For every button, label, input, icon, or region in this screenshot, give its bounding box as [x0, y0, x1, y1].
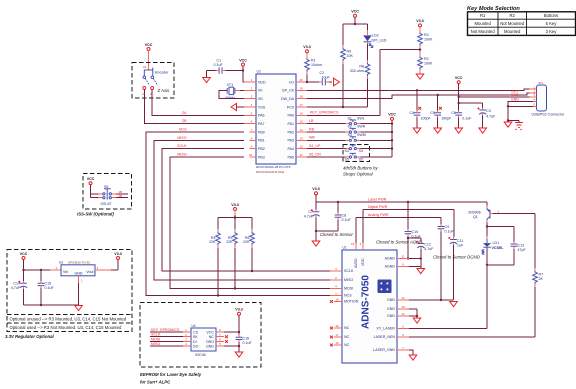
- net label Laser PWR: [368, 198, 387, 202]
- svg-text:Mounted: Mounted: [475, 21, 492, 26]
- ground arrow (C5): [434, 128, 442, 133]
- svg-text:22K: 22K: [243, 240, 250, 244]
- capacitor C16 0.1uF: [236, 335, 253, 352]
- EEPROM right pin numbers: [219, 328, 221, 346]
- resistor R1 10ohm: [305, 53, 322, 75]
- capacitor C5 100pF: [430, 94, 452, 128]
- svg-text:Vout: Vout: [86, 270, 93, 274]
- svg-text:0.1uF: 0.1uF: [214, 63, 224, 67]
- power V3.3 (pull-ups): [231, 203, 238, 211]
- svg-text:Vin: Vin: [63, 270, 68, 274]
- svg-text:2K: 2K: [539, 277, 544, 281]
- IC U2 left pin names: [258, 80, 266, 159]
- net label MISO: [177, 136, 186, 140]
- svg-text:PB0: PB0: [258, 130, 265, 134]
- svg-text:16: 16: [299, 111, 303, 115]
- wire connector ground pins: [507, 102, 533, 123]
- net label S4_UP: [309, 144, 321, 148]
- net label SCLK (eeprom): [151, 333, 161, 337]
- svg-text:VCC: VCC: [145, 43, 153, 47]
- switch S5: [345, 153, 363, 161]
- wire EEPROM SK: [150, 336, 183, 338]
- label USB/PS2 Connector: [532, 112, 566, 116]
- svg-text:GP_CK: GP_CK: [282, 89, 295, 93]
- svg-text:ISS-6T: ISS-6T: [101, 202, 113, 206]
- EEPROM pin names: [193, 330, 199, 348]
- svg-text:R7: R7: [539, 273, 544, 277]
- svg-text:Digital PWR: Digital PWR: [368, 205, 388, 209]
- wire AGND pins: [409, 257, 422, 268]
- wire C1 to VCC node: [226, 70, 243, 72]
- svg-text:X0: X0: [258, 89, 262, 93]
- svg-text:V3.3: V3.3: [114, 252, 121, 256]
- svg-text:Not Mounted: Not Mounted: [471, 29, 496, 34]
- ground arrow (EEPROM): [235, 352, 243, 357]
- wire VSS: [237, 106, 250, 108]
- net label ZB: [182, 119, 187, 123]
- svg-text:MISO: MISO: [177, 136, 186, 140]
- svg-text:15: 15: [299, 120, 303, 124]
- junction C1/VCC: [242, 69, 244, 71]
- IC U2 left pin stubs: [250, 82, 257, 157]
- power VCC (buttons): [388, 113, 396, 121]
- svg-text:11: 11: [299, 153, 302, 157]
- svg-text:AVDD: AVDD: [354, 258, 358, 268]
- wire LASER_GND: [409, 350, 413, 355]
- LED LD2 DPI_LED: [363, 30, 387, 47]
- note Closed to Sensor DGND: [433, 254, 480, 259]
- svg-text:Closed to Sensor DGND: Closed to Sensor DGND: [433, 254, 480, 259]
- wire R9 to PC0 line: [342, 64, 344, 108]
- capacitor C4 100pF: [410, 89, 432, 128]
- svg-text:RB: RB: [309, 127, 315, 131]
- svg-text:V3.3: V3.3: [231, 203, 238, 207]
- svg-text:100K: 100K: [424, 62, 433, 66]
- wire GND15/GND13: [409, 309, 418, 318]
- svg-text:C7: C7: [308, 210, 313, 214]
- switch S1 SWL: [345, 116, 364, 124]
- svg-text:NC: NC: [344, 343, 350, 347]
- ground arrow (GND15): [413, 318, 421, 323]
- no-connect X EEPROM NC: [225, 335, 228, 338]
- svg-text:VCC: VCC: [206, 330, 214, 334]
- svg-text:KEY_EPROM/CS: KEY_EPROM/CS: [151, 328, 180, 332]
- svg-text:EEPROM for Laser Eye Safety: EEPROM for Laser Eye Safety: [140, 372, 202, 377]
- ADNS left pin names: [344, 269, 359, 347]
- svg-text:LD2: LD2: [372, 34, 379, 38]
- svg-text:PA1: PA1: [287, 122, 294, 126]
- svg-text:MOTION: MOTION: [344, 300, 359, 304]
- svg-text:14: 14: [299, 128, 303, 132]
- laser diode LD1 VCSEL: [482, 236, 504, 254]
- svg-text:VCC: VCC: [239, 58, 247, 62]
- resistor R5 22K: [209, 229, 220, 248]
- svg-text:XT1: XT1: [227, 83, 234, 87]
- IC U2 right pin stubs: [296, 82, 307, 157]
- svg-text:17: 17: [335, 333, 339, 337]
- wire Analog PWR rail: [356, 218, 441, 251]
- capacitor C10 0.1uF: [405, 202, 422, 260]
- svg-text:SCLK: SCLK: [151, 333, 161, 337]
- svg-text:XY_LASER: XY_LASER: [376, 327, 395, 331]
- svg-text:18: 18: [299, 95, 303, 99]
- svg-text:LD1: LD1: [493, 241, 500, 245]
- dashed box ISS-SW: [83, 174, 132, 210]
- svg-text:6MHz: 6MHz: [226, 96, 236, 100]
- sensor icon: [378, 280, 392, 294]
- svg-text:GND: GND: [387, 307, 395, 311]
- svg-text:R1: R1: [480, 13, 486, 18]
- no-connect X MOTION: [330, 300, 333, 303]
- ground arrow (AGND): [417, 269, 425, 274]
- wire regulator ground rail: [24, 276, 79, 306]
- net label Digital PWR: [368, 205, 388, 209]
- net labels ISS: [119, 190, 123, 198]
- svg-text:VCSEL: VCSEL: [492, 246, 505, 250]
- svg-text:VCC: VCC: [351, 10, 359, 14]
- svg-text:Closed to Sensor AGND: Closed to Sensor AGND: [376, 240, 422, 245]
- wire Digital PWR rail: [363, 210, 454, 251]
- wire V3.3 rail pull-ups: [218, 211, 252, 230]
- svg-text:SWL: SWL: [357, 116, 365, 120]
- svg-text:SK: SK: [193, 335, 198, 339]
- svg-text:PA3: PA3: [287, 139, 294, 143]
- wire DW_DA to connector pin2: [307, 93, 537, 98]
- net label KEY_EPROM/CS (eeprom): [151, 328, 180, 332]
- svg-text:R9: R9: [347, 50, 352, 54]
- note Closed to Sensor: [320, 232, 354, 237]
- svg-text:VDD: VDD: [258, 80, 266, 84]
- wire VCC to encoder: [148, 51, 150, 71]
- ground arrow (LASER_GND): [409, 355, 417, 360]
- wire Q1 base to R7: [490, 214, 535, 268]
- svg-text:S3: S3: [348, 133, 352, 137]
- svg-text:SWM: SWM: [357, 133, 366, 137]
- svg-text:22K: 22K: [209, 240, 216, 244]
- wire gnd to C1: [207, 71, 216, 78]
- svg-text:NC: NC: [209, 335, 215, 339]
- wire ISS rows: [91, 185, 129, 198]
- earth ground (connector): [515, 123, 523, 131]
- capacitor C6 0.1uF: [451, 110, 472, 120]
- svg-text:MOSI: MOSI: [151, 337, 160, 341]
- svg-text:Encoder: Encoder: [155, 71, 169, 75]
- svg-text:3.3V Regulator Optional: 3.3V Regulator Optional: [5, 334, 55, 339]
- wire RB row: [307, 131, 392, 133]
- svg-text:18: 18: [351, 242, 355, 246]
- svg-text:C1: C1: [217, 59, 222, 63]
- net label LB: [309, 119, 314, 123]
- svg-text:GND: GND: [387, 298, 395, 302]
- svg-text:12: 12: [299, 145, 303, 149]
- ADNS right pin numbers: [401, 255, 405, 351]
- svg-text:GND: GND: [75, 272, 83, 276]
- ground arrow (GND12): [450, 302, 458, 307]
- ground arrow VSS: [231, 103, 237, 110]
- svg-text:KEY_EPROM/CS: KEY_EPROM/CS: [310, 111, 339, 115]
- svg-text:ADNS-7050: ADNS-7050: [361, 275, 372, 329]
- svg-text:I/O: I/O: [289, 80, 294, 84]
- svg-text:R8: R8: [359, 65, 364, 69]
- wire VCC vertical: [458, 84, 460, 128]
- wire V3.3 to EEPROM VCC: [224, 315, 240, 347]
- svg-text:VDD: VDD: [361, 258, 365, 266]
- svg-text:MISO: MISO: [151, 342, 160, 346]
- svg-text:AGND: AGND: [385, 265, 396, 269]
- label ISS-SW (Optional): [77, 212, 114, 217]
- svg-text:100pF: 100pF: [421, 117, 432, 121]
- dashed box EEPROM: [140, 303, 261, 368]
- power VCC (ISS): [87, 177, 95, 185]
- wire R7 to LASER_NEN: [409, 287, 535, 337]
- svg-text:47pF: 47pF: [518, 248, 527, 252]
- svg-text:JP1: JP1: [538, 81, 544, 85]
- power VCC (connector): [455, 76, 463, 84]
- svg-text:VCC: VCC: [455, 76, 463, 80]
- encoder Z1: [142, 65, 169, 96]
- EEPROM left pin numbers: [185, 328, 187, 346]
- svg-text:SCLK: SCLK: [177, 144, 187, 148]
- power VCC (MCU): [239, 58, 247, 66]
- svg-text:12: 12: [401, 296, 405, 300]
- svg-text:0.1uF: 0.1uF: [445, 230, 455, 234]
- svg-text:PB2: PB2: [258, 147, 265, 151]
- resistor R3 22K: [243, 229, 254, 248]
- capacitor C14 4.7uF: [11, 270, 27, 305]
- svg-text:Mounted: Mounted: [504, 29, 521, 34]
- svg-text:NCS: NCS: [344, 294, 352, 298]
- svg-text:for Sun+ ALPC: for Sun+ ALPC: [140, 379, 171, 384]
- svg-text:C4: C4: [410, 111, 415, 115]
- capacitor C11 1uF: [448, 237, 464, 300]
- svg-text:13: 13: [401, 312, 405, 316]
- wire MISO (pin8 down to ADNS row): [154, 140, 330, 280]
- svg-text:PB3: PB3: [258, 155, 265, 159]
- switch S2 SWR: [345, 125, 365, 133]
- svg-text:ZB: ZB: [182, 119, 187, 123]
- svg-text:20: 20: [299, 78, 303, 82]
- IC U2 body: [256, 70, 296, 174]
- svg-text:S9: S9: [104, 185, 108, 189]
- svg-text:0.1uF: 0.1uF: [243, 341, 253, 345]
- net label ZA: [182, 111, 187, 115]
- svg-text:19: 19: [299, 86, 303, 90]
- svg-text:CS: CS: [193, 330, 199, 334]
- ground arrow (C3): [479, 128, 487, 133]
- svg-text:10: 10: [335, 341, 339, 345]
- table Key Mode Selection: [468, 12, 576, 36]
- svg-text:DFCP16A41H4 Mod: DFCP16A41H4 Mod: [256, 170, 284, 174]
- ADNS right pin names: [373, 257, 395, 353]
- svg-text:C3: C3: [486, 109, 491, 113]
- svg-text:2B: 2B: [119, 194, 123, 198]
- svg-text:PA5: PA5: [287, 155, 294, 159]
- wire R1 to pin20: [306, 75, 308, 84]
- ground arrow (divider): [416, 74, 424, 79]
- svg-text:U4: U4: [192, 324, 196, 328]
- svg-text:C11: C11: [457, 239, 463, 243]
- svg-text:C5: C5: [430, 111, 435, 115]
- svg-text:17: 17: [299, 103, 303, 107]
- svg-text:Z Axis: Z Axis: [158, 88, 170, 93]
- svg-text:ORG: ORG: [206, 340, 214, 344]
- note text regulator options: [10, 317, 127, 330]
- net label S5_DN: [309, 152, 321, 156]
- svg-text:PB1: PB1: [258, 139, 265, 143]
- svg-text:DW_DA: DW_DA: [281, 97, 295, 101]
- ground arrow (C4): [413, 128, 421, 133]
- resistor R4 100K: [418, 27, 433, 49]
- power VCC (LED rail): [351, 10, 359, 18]
- svg-text:Q1: Q1: [473, 215, 478, 219]
- resistor R8 332-ohm: [350, 60, 370, 79]
- svg-text:NC: NC: [344, 335, 350, 339]
- svg-text:LASER_GND: LASER_GND: [373, 348, 395, 352]
- svg-text:NC: NC: [344, 326, 350, 330]
- svg-text:LASER_NEN: LASER_NEN: [374, 335, 396, 339]
- svg-text:DO: DO: [193, 344, 199, 348]
- svg-text:100K: 100K: [424, 38, 433, 42]
- wire Q1 collector to LD1: [486, 223, 514, 242]
- svg-text:S2: S2: [348, 125, 352, 129]
- svg-text:V3.3: V3.3: [312, 187, 319, 191]
- svg-text:U1: U1: [343, 246, 347, 250]
- svg-text:3 Key: 3 Key: [546, 29, 558, 34]
- wire R5 to NCS: [217, 248, 219, 297]
- net label KEY_EPROM/CS: [310, 111, 339, 115]
- table title: [467, 6, 520, 12]
- wire ZA (pin5 to encoder): [152, 89, 249, 115]
- wire R2 to gnd: [419, 73, 421, 75]
- label 4th/5th Buttons by Straps Optional: [343, 166, 378, 177]
- svg-text:ZA: ZA: [182, 111, 187, 115]
- net label MOSI (eeprom): [151, 337, 160, 341]
- svg-text:C6: C6: [451, 111, 456, 115]
- ADNS top pin names: [354, 258, 365, 268]
- svg-text:Buttons: Buttons: [544, 13, 558, 18]
- wire ZB (pin6 to encoder): [144, 89, 249, 123]
- svg-text:C16: C16: [243, 337, 250, 341]
- transistor Q1 2N3906: [468, 202, 500, 223]
- svg-text:15: 15: [401, 305, 405, 309]
- capacitor C15 0.1uF: [38, 270, 55, 305]
- capacitor C13 47pF: [487, 242, 526, 265]
- svg-text:Closed to Sensor: Closed to Sensor: [320, 232, 354, 237]
- svg-text:SWR: SWR: [357, 125, 366, 129]
- ADNS top pin stubs: [356, 243, 363, 250]
- capacitor C1 0.1uF: [214, 59, 226, 74]
- svg-text:5 Key: 5 Key: [546, 21, 558, 26]
- capacitor C12 4.7uF: [408, 238, 434, 259]
- ground arrow (regulator): [75, 306, 83, 311]
- EEPROM U4 93C46 body: [191, 324, 216, 357]
- net labels connector: [511, 89, 519, 101]
- svg-text:DI: DI: [193, 340, 197, 344]
- power V3.3 (EEPROM): [235, 308, 242, 316]
- wire LD1 cathode to XY_LASER: [409, 249, 488, 329]
- net label NCS: [179, 128, 187, 132]
- svg-text:R1: R1: [311, 59, 316, 63]
- svg-text:10K: 10K: [347, 54, 354, 58]
- svg-text:VCC: VCC: [388, 113, 396, 117]
- svg-text:4.7uF: 4.7uF: [11, 286, 21, 290]
- resistor R6 22K: [226, 229, 237, 248]
- svg-text:LB: LB: [309, 119, 314, 123]
- capacitor C3 4.7uF: [478, 108, 497, 119]
- power V3.3 (divider): [416, 19, 423, 27]
- svg-text:19: 19: [335, 324, 339, 328]
- no-connect X EEPROM ORG: [225, 340, 228, 343]
- svg-text:U2: U2: [257, 70, 261, 74]
- switch S9 ISS-6T: [99, 185, 117, 206]
- svg-text:MOSI: MOSI: [177, 152, 186, 156]
- svg-text:Straps Optional: Straps Optional: [343, 172, 374, 177]
- svg-text:ISS-SW (Optional): ISS-SW (Optional): [77, 212, 114, 217]
- dashed box Z encoder: [132, 63, 174, 99]
- svg-text:0.1uF: 0.1uF: [342, 218, 352, 222]
- connector pin stubs: [533, 89, 537, 106]
- svg-text:Key Mode Selection: Key Mode Selection: [467, 6, 520, 12]
- ADNS right pin stubs: [397, 259, 409, 351]
- svg-text:MISO: MISO: [344, 278, 353, 282]
- svg-text:4.7uF: 4.7uF: [424, 247, 434, 251]
- svg-text:V3.3: V3.3: [303, 45, 310, 49]
- svg-text:R4: R4: [424, 33, 429, 37]
- svg-text:C9: C9: [445, 225, 450, 229]
- svg-text:S4: S4: [345, 149, 349, 153]
- switch S4: [345, 145, 363, 153]
- svg-text:PA4: PA4: [287, 147, 294, 151]
- wire VCC to Vin: [22, 260, 61, 272]
- svg-text:XD: XD: [258, 97, 263, 101]
- label Z Axis: [158, 88, 170, 93]
- svg-text:R2: R2: [424, 57, 429, 61]
- connector pin numbers: [533, 85, 535, 106]
- dashed box regulator: [7, 250, 132, 332]
- svg-text:3N3906: 3N3906: [468, 211, 481, 215]
- ground arrow (C7/C8): [312, 241, 320, 246]
- svg-text:GND: GND: [206, 344, 214, 348]
- capacitor C8 0.1uF: [335, 202, 352, 231]
- net label RB: [309, 127, 315, 131]
- svg-text:U3: U3: [59, 261, 63, 265]
- connector JP1 body: [537, 81, 547, 111]
- EEPROM right pin stubs: [216, 332, 224, 346]
- svg-text:4th/5th Buttons by: 4th/5th Buttons by: [343, 166, 378, 171]
- svg-text:4.7uF: 4.7uF: [486, 115, 496, 119]
- net label SCLK: [177, 144, 187, 148]
- ground arrow (C1): [203, 78, 211, 83]
- svg-text:PA2: PA2: [287, 130, 294, 134]
- svg-text:DPI_LED: DPI_LED: [372, 39, 387, 43]
- ADNS top pin numbers: [351, 242, 362, 246]
- wire Laser PWR rail: [316, 195, 487, 204]
- capacitor C9 0.1uF: [438, 224, 455, 301]
- dashed box 4th/5th buttons: [343, 144, 370, 161]
- wire VCC buttons column: [391, 120, 393, 157]
- power V3.3 (regulator out): [114, 252, 121, 260]
- wire S5_DN row: [307, 156, 392, 158]
- svg-text:VSS: VSS: [258, 105, 266, 109]
- wire Vout to V3.3: [95, 260, 118, 271]
- svg-text:V3.3: V3.3: [235, 308, 242, 312]
- crystal XT1 6MHz: [226, 83, 236, 100]
- svg-text:16: 16: [335, 298, 339, 302]
- IC U1 ADNS-7050 body: [342, 246, 397, 364]
- svg-text:NCS: NCS: [179, 128, 187, 132]
- svg-text:SCLK: SCLK: [344, 269, 354, 273]
- net label MOSI: [177, 152, 186, 156]
